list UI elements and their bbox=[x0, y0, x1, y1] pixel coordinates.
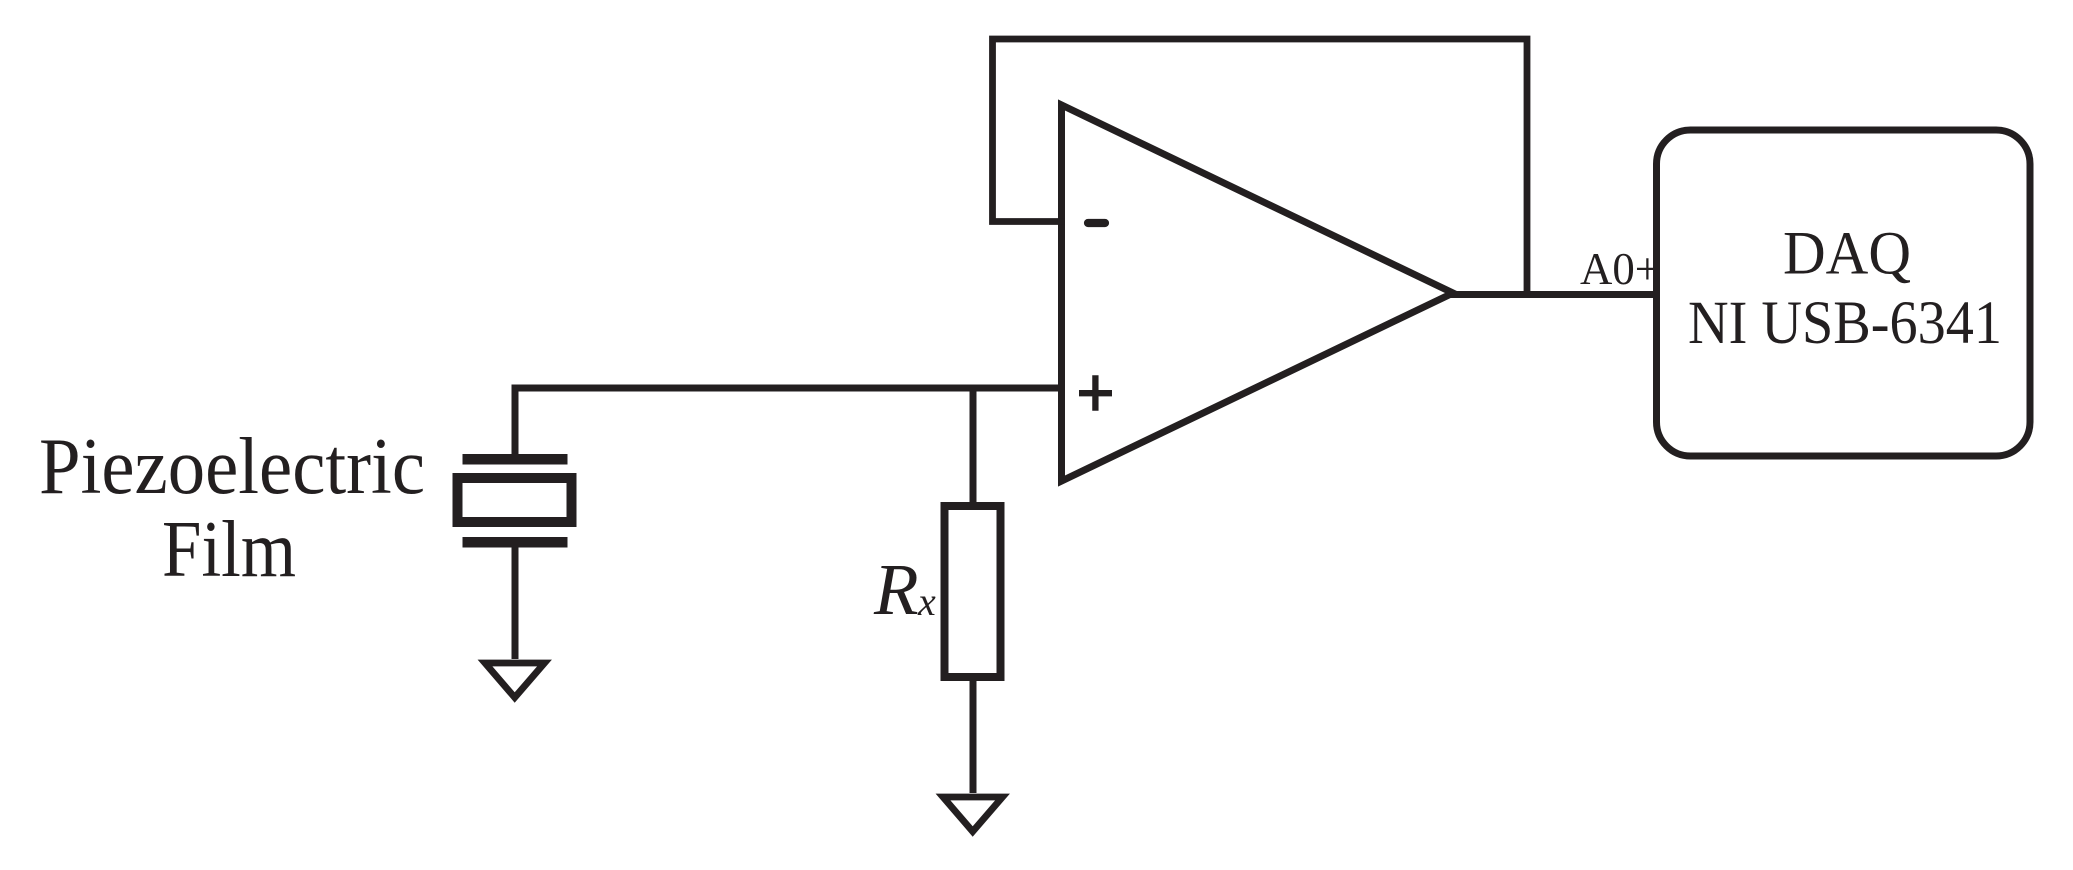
svg-text:R: R bbox=[873, 549, 919, 630]
bottom plate bbox=[463, 537, 568, 548]
svg-text:DAQ: DAQ bbox=[1783, 221, 1911, 288]
wire junction drop to Rx bbox=[970, 388, 977, 506]
op-amp U1 triangle bbox=[1062, 105, 1454, 481]
top plate bbox=[463, 454, 568, 465]
piezoelectric film transducer (crystal symbol) bbox=[458, 454, 572, 548]
svg-text:Film: Film bbox=[162, 504, 296, 594]
label A0+ bbox=[1580, 243, 1660, 294]
label Piezoelectric Film bbox=[39, 421, 425, 594]
resistor Rx bbox=[945, 506, 1001, 677]
DAQ NI USB-6341 box bbox=[1657, 130, 2031, 456]
svg-text:A0+: A0+ bbox=[1580, 243, 1660, 294]
svg-text:x: x bbox=[917, 579, 936, 624]
feedback wire from output to minus input bbox=[993, 39, 1528, 295]
svg-text:Piezoelectric: Piezoelectric bbox=[39, 421, 425, 511]
wire from piezo top to op-amp + input bbox=[515, 388, 1065, 454]
ground (Rx side) bbox=[943, 797, 1003, 832]
label DAQ NI USB-6341 bbox=[1688, 221, 2002, 357]
label Rx bbox=[873, 549, 936, 630]
output wire to DAQ bbox=[1448, 291, 1656, 298]
crystal body bbox=[458, 478, 572, 522]
svg-text:NI USB-6341: NI USB-6341 bbox=[1688, 290, 2002, 357]
ground (piezo side) bbox=[485, 663, 545, 698]
wire from Rx bottom to ground bbox=[970, 677, 977, 793]
wire from piezo bottom to ground bbox=[512, 548, 519, 660]
op-amp minus input symbol bbox=[1088, 219, 1105, 227]
op-amp plus input symbol bbox=[1079, 375, 1112, 411]
